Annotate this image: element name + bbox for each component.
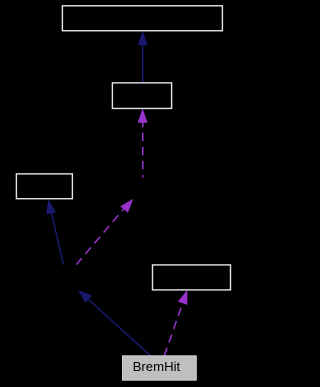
node N2: second-level box (label invisible) [112,83,171,109]
inheritance arrow D: hidden node -> N3 (solid midnightblue, diagonal) [46,199,63,264]
node N3: left box (label invisible) [16,174,72,199]
svg-text:BremHit: BremHit [133,359,181,374]
usage arrow F: BremHit -> N4 (dashed darkorchid, diagonal) [164,290,187,356]
inheritance arrow A: N2 -> N1 (solid midnightblue) [138,31,148,83]
usage arrow C: hidden node -> hidden node above (dashed darkorchid, diagonal) [76,199,133,265]
node N4: right box (label invisible) [153,265,231,290]
usage arrow B: hidden node -> N2 (dashed darkorchid, vertical) [138,109,148,178]
node N1: top base-class box (label invisible) [62,6,222,31]
node BremHit: current class, grey filled [123,356,197,380]
inheritance arrow E: BremHit -> hidden node (solid midnightblue, diagonal) [78,290,150,356]
